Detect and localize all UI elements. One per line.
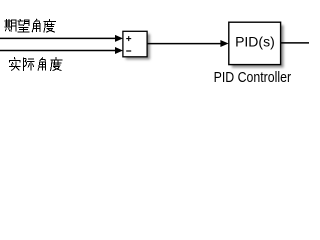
svg-text:PID Controller: PID Controller: [214, 69, 292, 86]
label 期望角度 (desired angle): [5, 19, 56, 32]
wire: actual angle input: [0, 50, 116, 52]
arrowhead into PID input: [220, 40, 228, 47]
arrowhead into sum - port: [115, 47, 123, 54]
sum block: [123, 31, 147, 57]
svg-text:PID(s): PID(s): [235, 33, 275, 49]
PID block: [229, 22, 281, 64]
wire: sum output to PID: [147, 43, 221, 45]
sum block shadow: [126, 34, 150, 60]
plus sign: [126, 36, 131, 41]
PID block shadow: [232, 25, 284, 67]
minus sign: [126, 50, 131, 52]
arrowhead into sum + port: [115, 35, 123, 42]
wire: PID output: [281, 42, 309, 44]
label 实际角度 (actual angle): [9, 58, 62, 71]
wire: desired angle input: [0, 37, 116, 39]
